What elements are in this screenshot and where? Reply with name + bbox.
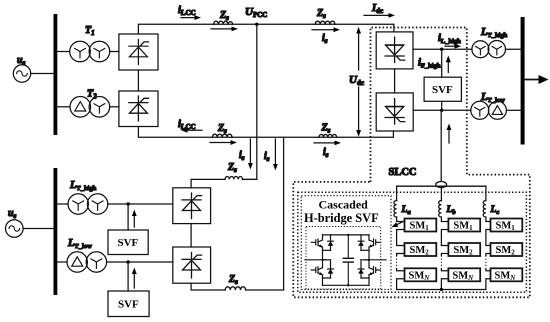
bus 3 (right) [521,17,525,145]
dashed boundary (inverter+SLCC outer polygon) [293,28,530,298]
wire node2 down to SLCC [440,110,442,181]
inductor Zs (top right) [315,21,335,24]
inductor La [394,201,397,217]
bus 1 [54,14,58,135]
arrow is (bottom right) [314,141,341,146]
arrow Idc [364,13,395,18]
inductor Zs (SVF bottom branch) [225,287,245,290]
transformer LT_low (left) [67,252,107,272]
wire left leg mid [322,250,324,259]
transformer LT_low (right) [471,101,507,119]
arrow is (top right) [312,27,340,32]
wire bus2 to LT_high [57,203,68,205]
wire coil to PCC line [243,178,257,180]
svg-text:Cascaded: Cascaded [319,198,369,212]
arrow under Zs bottom left [210,140,237,145]
Udc measurement arrow [356,27,361,137]
node SVF2 [126,260,129,263]
SM2 box phase c [491,243,523,257]
node neutral bus [440,288,443,291]
wire between rectifier boxes [137,70,139,91]
wire SVF bottom to node2 [441,101,443,110]
SLCC bottom neutral bus [397,289,486,291]
SMN box phase b [448,268,480,282]
arrow is down (line 2) [273,139,278,171]
inductor Zs (SVF top branch) [225,177,243,180]
arrow is down (line 1) [248,139,253,170]
SLCC dotted box [298,192,527,292]
wire T2 to converter [110,106,119,108]
phase a feeder [396,186,398,200]
source us (bottom) [6,220,24,238]
inductor Zs (top left) [214,21,233,24]
inverter valve box 1 (top) [376,32,413,69]
wire bus2 to LT_low [57,261,67,263]
transformer LT_high (right) [472,41,506,58]
H-bridge dc capacitor [343,234,353,287]
inductor Zs (bottom right) [319,134,337,137]
H-bridge bottom rail [323,284,370,286]
SMN box phase c [491,268,523,282]
wire T1 to converter [110,51,119,53]
arrow up to node (SVF1) [132,210,137,228]
SVF box (right) [424,77,461,101]
svg-text:SVF: SVF [118,299,139,311]
SM2 box phase a [405,243,437,257]
arrow up to node (SVF2) [132,268,137,289]
load arrow from bus3 [525,75,549,84]
SM2 box phase b [448,243,480,257]
phase b feeder [440,186,442,200]
Cascaded H-bridge SVF dashed box [301,196,391,290]
phase b SM chain wires [441,217,448,290]
svg-text:SVF: SVF [118,237,139,249]
arrow iLCC right [181,15,201,20]
arrow up from SLCC [447,124,452,144]
arrow under Zs [211,27,238,32]
IGBT Q1 (top-left) [311,235,333,250]
connector oval [436,182,447,188]
wire converter2 bottom to Zs [191,283,225,290]
SM1 box phase a [405,219,437,233]
H-bridge inner dashed box [306,227,381,290]
transformer T1 [70,41,110,62]
node on LT_low wire [440,109,443,112]
transformer LT_high (left) [68,194,108,214]
wire top dc rail [138,24,394,34]
wire junction line 2 down [246,137,284,290]
wire between inverter boxes [394,69,396,93]
SMN box phase a [405,268,437,282]
phase c feeder [485,186,487,200]
wire right leg mid [368,250,370,259]
bus 2 [54,168,58,295]
wire node to SVF2 [127,262,129,291]
arrow iF_high up [446,56,451,73]
node SVF1 [126,202,129,205]
wire inverter2 to LT_low [413,109,470,111]
wire between SVF converters [190,224,192,247]
SVF box 2 (left) [108,291,149,317]
wire source2 to bus2 [23,228,53,230]
wire bus1 to T2 [57,106,69,108]
wire bus1 to T1 [57,51,69,53]
wire LT_low to bus3 [506,109,520,111]
phase c SM chain wires [486,217,491,290]
wire node to SVF1 [127,204,129,230]
wire LT_low to converter 2 [107,261,173,263]
SLCC top bus [397,185,486,187]
wire PCC vertical line to lower circuit [242,24,257,179]
LCC converter box 1 (rectifier top) [119,34,158,70]
arrow iL_high [445,44,461,49]
SM1 box phase c [491,219,523,233]
phase a SM chain wires [397,217,405,290]
IGBT Q4 (bottom-right) [358,259,380,286]
SM1 box phase b [448,219,480,233]
node iL_high [440,48,443,51]
SVF converter box 1 [173,188,211,224]
inductor Lc [483,201,486,217]
svg-text:H-bridge SVF: H-bridge SVF [304,211,379,225]
wire LT_high to bus3 [506,48,521,50]
wire inverter1 to LT_high [413,48,472,50]
wire LT_high to converter 1 [108,203,173,205]
inductor Lb [439,201,442,217]
SVF converter box 2 [173,247,211,283]
H-bridge ac stub left [305,259,331,261]
annotation arrow to H-bridge box [392,221,405,228]
svg-text:SVF: SVF [432,84,453,96]
IGBT Q3 (top-right) [358,235,380,250]
wire bottom dc rail [138,127,393,138]
svg-text:SLCC: SLCC [389,167,417,178]
SVF box 1 (left) [108,230,148,255]
IGBT Q2 (bottom-left) [311,259,333,286]
H-bridge top rail [323,234,370,236]
wire converter1 top to Zs [191,179,225,187]
H-bridge ac stub right [361,259,386,261]
transformer T2 [70,97,110,118]
source us (top) [13,65,30,82]
inductor Zs (bottom left) [212,134,232,137]
arrow iLCC left [181,128,202,133]
inverter valve box 2 (bottom) [376,93,413,131]
wire node to SVF top [441,49,443,77]
wire source to bus1 [31,73,54,75]
LCC converter box 2 (rectifier bottom) [119,91,158,127]
node PCC [255,23,258,26]
